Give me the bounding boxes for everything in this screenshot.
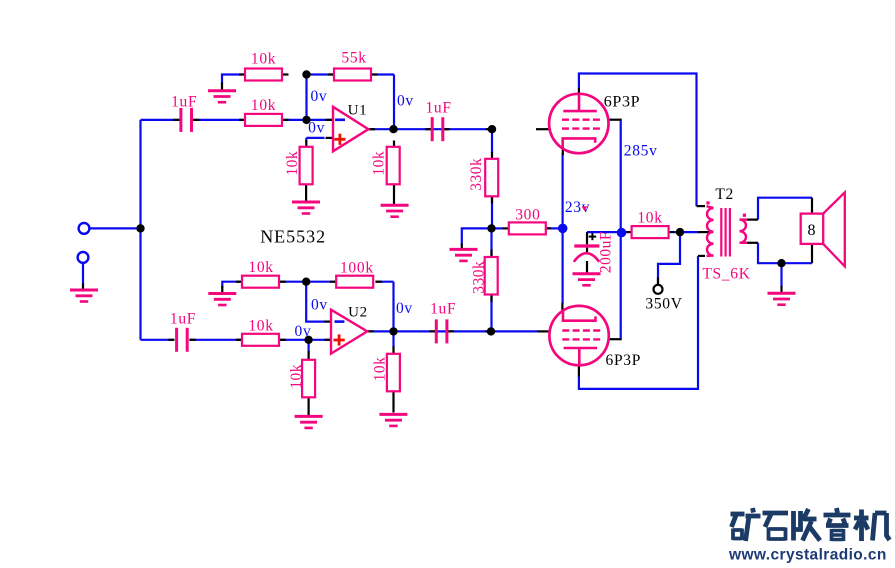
svg-text:10k: 10k — [251, 50, 276, 67]
svg-text:T2: T2 — [715, 186, 734, 203]
svg-text:10k: 10k — [637, 209, 662, 226]
svg-text:10k: 10k — [372, 357, 389, 382]
svg-text:8: 8 — [807, 222, 816, 239]
svg-text:350V: 350V — [645, 296, 682, 313]
svg-text:200uF: 200uF — [598, 231, 615, 273]
svg-text:300: 300 — [515, 207, 540, 224]
svg-text:0v: 0v — [310, 88, 327, 105]
svg-text:10k: 10k — [251, 97, 276, 114]
svg-text:10k: 10k — [284, 151, 301, 176]
svg-text:1uF: 1uF — [425, 100, 451, 117]
svg-text:TS_6K: TS_6K — [702, 265, 750, 282]
svg-text:www.crystalradio.cn: www.crystalradio.cn — [728, 547, 887, 564]
svg-text:6P3P: 6P3P — [604, 93, 641, 110]
svg-text:330k: 330k — [471, 261, 488, 294]
svg-text:NE5532: NE5532 — [260, 226, 326, 246]
svg-text:55k: 55k — [341, 49, 366, 66]
svg-text:10k: 10k — [248, 318, 273, 335]
svg-text:0v: 0v — [396, 300, 413, 317]
svg-text:0v: 0v — [397, 92, 414, 109]
svg-text:1uF: 1uF — [430, 301, 456, 318]
svg-text:10k: 10k — [248, 259, 273, 276]
svg-text:100k: 100k — [340, 260, 374, 277]
svg-text:0v: 0v — [308, 120, 325, 137]
svg-text:U1: U1 — [348, 102, 368, 118]
svg-text:1uF: 1uF — [171, 94, 197, 111]
svg-text:6P3P: 6P3P — [606, 352, 642, 369]
svg-text:1uF: 1uF — [170, 311, 196, 328]
svg-text:10k: 10k — [371, 151, 388, 176]
svg-text:0v: 0v — [311, 296, 328, 313]
svg-text:330k: 330k — [468, 158, 485, 191]
svg-text:0v: 0v — [295, 323, 312, 340]
svg-text:10k: 10k — [288, 364, 305, 389]
svg-text:285v: 285v — [624, 142, 658, 159]
svg-text:U2: U2 — [348, 304, 368, 320]
